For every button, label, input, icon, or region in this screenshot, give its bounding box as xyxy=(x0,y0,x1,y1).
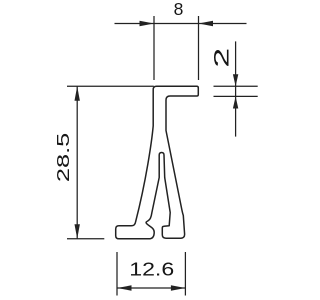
dim 8: dimension line xyxy=(115,23,247,25)
dim 2: bottom arrowhead xyxy=(233,96,238,108)
svg-text:2: 2 xyxy=(210,48,234,68)
dim 28.5: top arrowhead xyxy=(75,86,80,101)
dim 2: dimension line xyxy=(235,41,237,136)
dim 28.5: top extension line xyxy=(67,85,154,87)
dim 28.5: bottom extension line xyxy=(67,238,104,240)
dim 12.6: left extension line xyxy=(116,252,118,296)
svg-text:8: 8 xyxy=(174,0,184,19)
dim 28.5: dimension line xyxy=(76,86,78,238)
dim 2: top arrowhead xyxy=(233,74,238,86)
dim 8: right extension line xyxy=(198,16,200,80)
dim 12.6: right extension line xyxy=(184,252,186,296)
dim 12.6: dimension line xyxy=(117,287,185,289)
dim 8: left arrowhead xyxy=(140,21,155,26)
dim 12.6: left arrowhead xyxy=(117,285,132,290)
svg-text:12.6: 12.6 xyxy=(129,260,174,280)
svg-text:28.5: 28.5 xyxy=(53,133,73,182)
dim 8: right arrowhead xyxy=(199,21,214,26)
profile outline xyxy=(116,86,199,239)
dim 2: top extension tick xyxy=(214,85,258,87)
dim 8: left extension line xyxy=(153,16,155,80)
dim 2: bottom extension tick xyxy=(214,95,258,97)
dim 28.5: bottom arrowhead xyxy=(75,224,80,239)
dim 12.6: right arrowhead xyxy=(171,285,186,290)
